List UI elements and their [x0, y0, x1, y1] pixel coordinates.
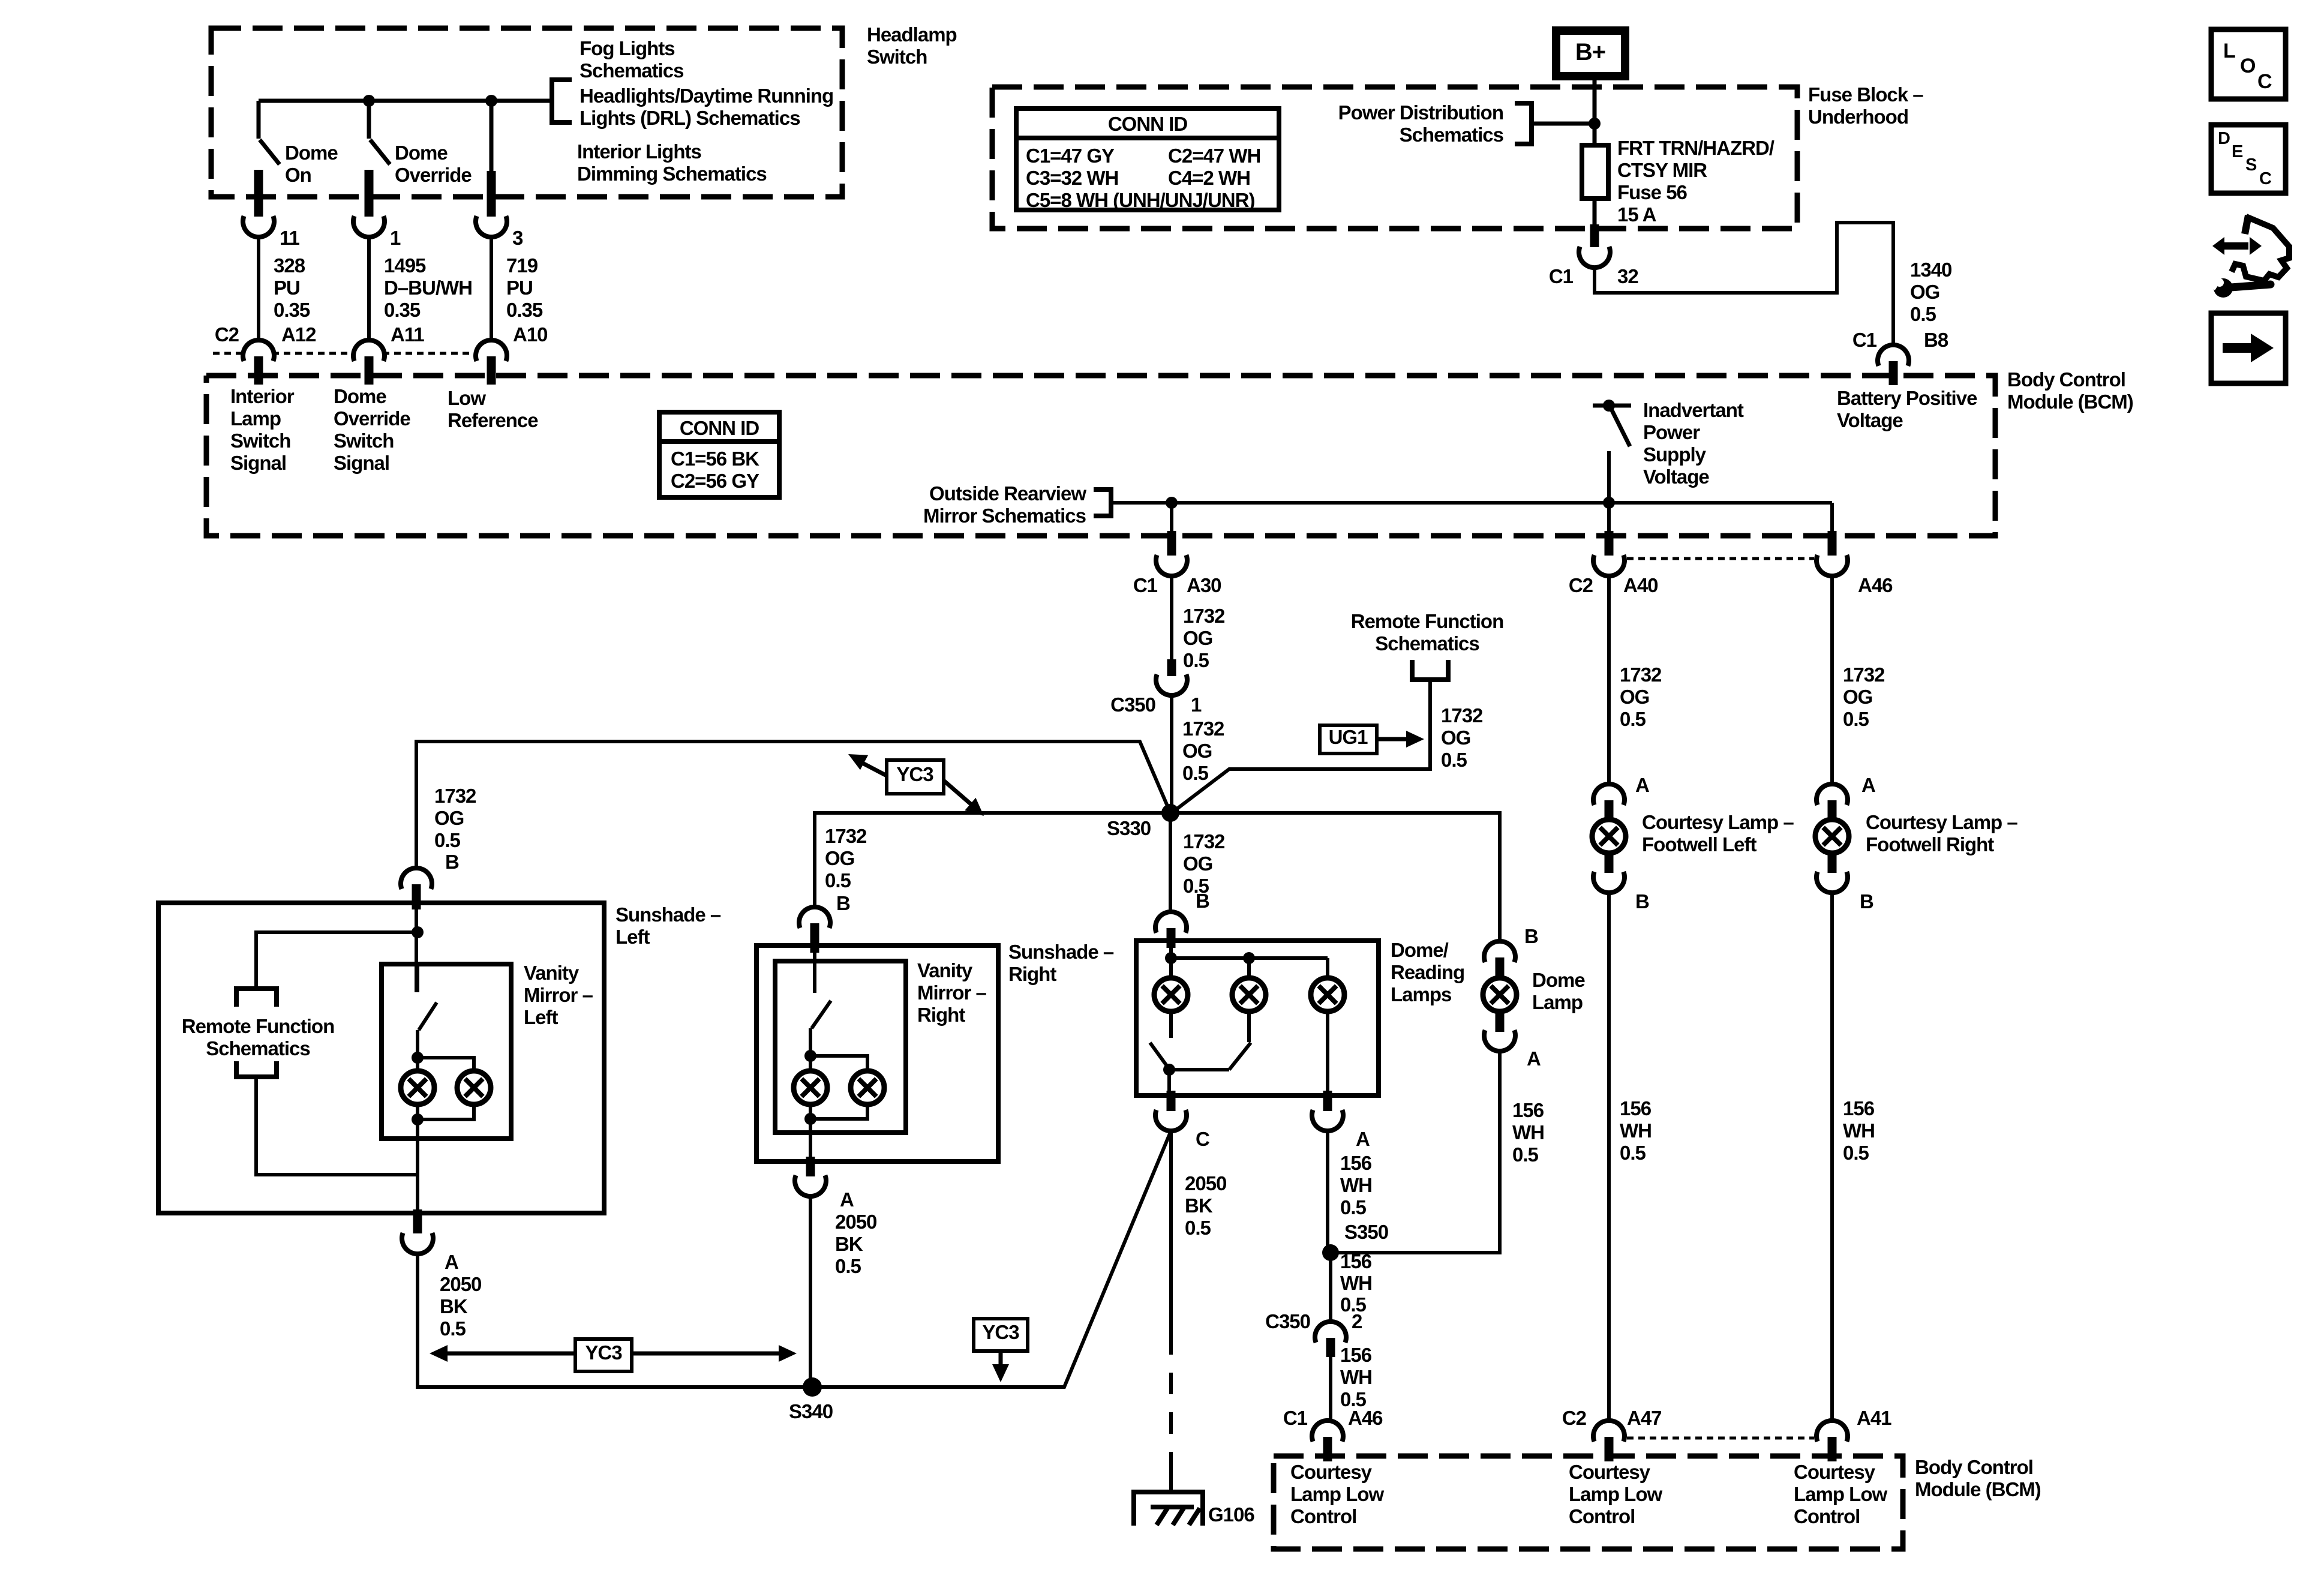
flag YC3 double arrow	[444, 1352, 575, 1356]
svg-text:C350: C350	[1110, 694, 1155, 716]
svg-text:Dimming Schematics: Dimming Schematics	[577, 163, 767, 185]
bracket to other schematics	[552, 80, 572, 122]
Vanity Mirror Right box	[775, 961, 906, 1133]
svg-text:BK: BK	[1185, 1194, 1213, 1217]
svg-text:Vanity: Vanity	[524, 962, 580, 984]
svg-text:WH: WH	[1620, 1119, 1652, 1142]
connector courtesy right pin A	[1816, 784, 1848, 805]
svg-text:C: C	[2257, 70, 2272, 93]
svg-text:C1=56 BK: C1=56 BK	[671, 448, 759, 470]
junction remote function tap left	[412, 926, 424, 938]
svg-text:A10: A10	[513, 323, 548, 346]
svg-text:A: A	[1861, 774, 1875, 796]
svg-text:Lamps: Lamps	[1391, 983, 1451, 1005]
svg-text:S340: S340	[789, 1400, 833, 1422]
svg-text:Schematics: Schematics	[206, 1037, 310, 1059]
Body Control Module bottom dashed box	[1274, 1456, 1903, 1549]
svg-text:A46: A46	[1348, 1407, 1383, 1429]
wire 1732 OG 0.5 remote function to S330	[1172, 680, 1430, 813]
svg-text:1732: 1732	[1441, 704, 1483, 727]
lamp courtesy footwell left	[1592, 819, 1626, 853]
wire 2050 BK 0.5 dome reading ground	[1169, 1131, 1173, 1333]
svg-text:Footwell Right: Footwell Right	[1866, 833, 1994, 855]
connector courtesy right pin B	[1828, 852, 1837, 873]
connector C2 pin A47	[1562, 1407, 1587, 1429]
battery feed B+	[1556, 31, 1625, 76]
flag YC3 lower	[974, 1319, 1028, 1351]
svg-text:C2: C2	[1569, 574, 1593, 596]
pin label courtesy lamp low control 3	[1794, 1461, 1887, 1527]
svg-text:A12: A12	[281, 323, 316, 346]
svg-text:Sunshade –: Sunshade –	[615, 903, 721, 926]
svg-text:Courtesy: Courtesy	[1569, 1461, 1651, 1483]
wire 1732 OG 0.5 C350 to S330	[1170, 695, 1173, 813]
junction dome override bus	[363, 95, 375, 107]
Sunshade Left box	[158, 903, 604, 1213]
svg-text:PU: PU	[274, 277, 300, 299]
svg-text:Control: Control	[1794, 1505, 1860, 1527]
svg-text:Voltage: Voltage	[1837, 409, 1903, 431]
svg-text:Signal: Signal	[230, 452, 286, 474]
svg-text:0.5: 0.5	[1843, 1142, 1869, 1164]
connector C350 pin 1	[1167, 659, 1176, 676]
svg-text:B+: B+	[1575, 39, 1605, 65]
wire B+ to fuse	[1593, 76, 1597, 145]
svg-text:Courtesy: Courtesy	[1290, 1461, 1373, 1483]
switch vanity mirror right	[813, 948, 816, 993]
svg-text:OG: OG	[1183, 852, 1212, 875]
svg-text:Fuse Block –: Fuse Block –	[1808, 83, 1923, 106]
svg-text:Voltage: Voltage	[1643, 466, 1709, 488]
junction vanity left lamps bottom	[412, 1113, 424, 1125]
svg-text:0.35: 0.35	[274, 299, 310, 321]
switch vanity mirror left	[416, 965, 419, 992]
svg-text:Mirror Schematics: Mirror Schematics	[923, 505, 1086, 527]
svg-text:Lamp Low: Lamp Low	[1794, 1483, 1887, 1505]
svg-text:2050: 2050	[440, 1273, 481, 1295]
junction dome lamp1 bus	[1165, 952, 1177, 964]
wire vanity right ground lead	[809, 1104, 812, 1161]
svg-text:L: L	[2223, 40, 2235, 62]
svg-text:Reading: Reading	[1391, 961, 1464, 983]
wire 156 WH 0.5 S350 to C350	[1329, 1253, 1332, 1322]
svg-text:C: C	[1196, 1128, 1209, 1150]
svg-text:UG1: UG1	[1329, 726, 1368, 748]
svg-text:0.35: 0.35	[506, 299, 543, 321]
bracket Outside Rearview Mirror Schematics	[929, 482, 1086, 505]
svg-text:0.35: 0.35	[384, 299, 421, 321]
wire vanity left feed	[415, 905, 418, 992]
svg-text:1732: 1732	[1183, 605, 1225, 627]
svg-text:C: C	[2259, 169, 2272, 188]
svg-text:156: 156	[1340, 1152, 1372, 1174]
svg-text:Fuse 56: Fuse 56	[1617, 181, 1688, 203]
svg-text:Control: Control	[1290, 1505, 1356, 1527]
svg-text:156: 156	[1340, 1250, 1372, 1272]
lamp dome	[1483, 978, 1517, 1011]
svg-text:YC3: YC3	[585, 1341, 622, 1364]
connector dome reading pin A	[1323, 1091, 1332, 1111]
wire 1732 OG 0.5 A40 to courtesy left	[1607, 576, 1611, 784]
svg-text:Courtesy Lamp –: Courtesy Lamp –	[1866, 811, 2017, 833]
junction A30 tap	[1166, 497, 1178, 509]
Fuse Block Underhood dashed box	[992, 87, 1797, 229]
CONN ID table fuse block	[1016, 109, 1279, 210]
connector dome lamp pin A	[1496, 1010, 1505, 1032]
icon DESC	[2211, 125, 2286, 193]
switch Dome On	[257, 101, 261, 139]
label Remote Function Schematics middle	[1351, 610, 1504, 632]
wire S350 to dome lamp A	[1331, 1051, 1500, 1253]
svg-text:32: 32	[1617, 265, 1638, 287]
ground G106	[1134, 1492, 1203, 1526]
connector face line C2 A47-A41	[1627, 1437, 1814, 1440]
wire headlamp switch internal bus	[259, 99, 552, 103]
svg-text:A47: A47	[1627, 1407, 1662, 1429]
svg-text:Remote Function: Remote Function	[1351, 610, 1504, 632]
svg-text:15 A: 15 A	[1617, 203, 1656, 226]
svg-text:1732: 1732	[434, 785, 476, 807]
svg-text:Lamp Low: Lamp Low	[1290, 1483, 1384, 1505]
svg-text:2050: 2050	[1185, 1172, 1226, 1194]
Body Control Module top dashed box	[206, 376, 1995, 536]
svg-text:A40: A40	[1623, 574, 1658, 596]
switch Inadvertant Power Supply Voltage	[1593, 404, 1631, 408]
svg-text:Courtesy: Courtesy	[1794, 1461, 1876, 1483]
BCM connector pin A10	[513, 323, 548, 346]
splice S340	[803, 1377, 822, 1397]
svg-text:S: S	[2245, 155, 2257, 175]
svg-text:0.5: 0.5	[1620, 708, 1646, 730]
svg-text:0.5: 0.5	[825, 869, 851, 891]
Sunshade Right box	[756, 945, 998, 1161]
svg-text:Outside Rearview: Outside Rearview	[929, 482, 1086, 505]
lamp vanity mirror right 1	[794, 1071, 827, 1104]
svg-text:Right: Right	[917, 1004, 965, 1026]
svg-text:E: E	[2232, 142, 2243, 161]
svg-text:Dome: Dome	[395, 142, 448, 164]
svg-text:Control: Control	[1569, 1505, 1635, 1527]
svg-text:1732: 1732	[1843, 664, 1885, 686]
BCM connector C2 pin A12	[215, 323, 239, 346]
svg-text:Left: Left	[615, 926, 650, 948]
connector pin 1	[365, 192, 374, 217]
svg-text:C350: C350	[1265, 1310, 1310, 1332]
wire 156 WH 0.5 courtesy right to A41	[1830, 893, 1834, 1421]
svg-text:B: B	[836, 892, 850, 914]
svg-text:OG: OG	[434, 807, 464, 829]
svg-text:FRT TRN/HAZRD/: FRT TRN/HAZRD/	[1617, 137, 1774, 159]
wire 1732 OG 0.5 A30 to C350	[1170, 576, 1173, 659]
svg-text:C2: C2	[1562, 1407, 1587, 1429]
svg-text:WH: WH	[1843, 1119, 1875, 1142]
svg-text:Interior: Interior	[230, 385, 295, 407]
headlamp switch dashed box	[211, 28, 842, 197]
svg-text:3: 3	[512, 227, 523, 249]
svg-text:1495: 1495	[384, 254, 426, 277]
svg-text:C2: C2	[215, 323, 239, 346]
svg-text:719: 719	[506, 254, 538, 277]
svg-text:0.5: 0.5	[434, 829, 461, 851]
wire 1340 OG 0.5	[1595, 223, 1893, 345]
connector C2 pin A40	[1605, 531, 1614, 556]
svg-text:S350: S350	[1344, 1221, 1388, 1243]
connector vanity right pin A	[806, 1157, 815, 1176]
svg-text:Underhood: Underhood	[1808, 106, 1908, 128]
connector pin 11	[254, 192, 263, 217]
connector C1 pin A46 courtesy low	[1283, 1407, 1308, 1429]
svg-text:C1: C1	[1852, 329, 1877, 351]
connector pin 3	[487, 192, 496, 217]
svg-text:1732: 1732	[1620, 664, 1662, 686]
splice S350	[1322, 1244, 1339, 1261]
svg-text:156: 156	[1512, 1099, 1544, 1121]
svg-text:A30: A30	[1187, 574, 1221, 596]
connector C1 pin 32	[1590, 224, 1599, 247]
junction vanity left lamps top	[412, 1052, 424, 1064]
connector sunshade left pin B	[401, 868, 432, 889]
icon forward arrow	[2211, 313, 2286, 383]
svg-text:0.5: 0.5	[1843, 708, 1869, 730]
pin label Dome Override Switch Signal	[334, 385, 410, 474]
svg-text:0.5: 0.5	[440, 1317, 466, 1340]
svg-text:Dome/: Dome/	[1391, 939, 1449, 961]
svg-text:OG: OG	[1843, 686, 1872, 708]
lamp vanity mirror left 1	[401, 1071, 434, 1104]
svg-text:A: A	[1527, 1047, 1541, 1070]
svg-text:C2=56 GY: C2=56 GY	[671, 470, 759, 492]
bracket Power Distribution Schematics	[1338, 101, 1503, 124]
svg-text:C3=32 WH: C3=32 WH	[1026, 167, 1118, 189]
svg-text:Vanity: Vanity	[917, 959, 973, 981]
wire 156 WH 0.5 dome lamp	[1512, 1099, 1544, 1166]
svg-text:OG: OG	[1441, 727, 1470, 749]
svg-text:OG: OG	[825, 847, 854, 869]
svg-text:A: A	[1356, 1128, 1370, 1150]
bracket remote function left lower	[236, 1061, 277, 1077]
pin label Low Reference	[448, 387, 538, 431]
bracket remote function left upper	[236, 989, 277, 1007]
lamp dome reading 3	[1326, 958, 1329, 979]
svg-text:Battery Positive: Battery Positive	[1837, 387, 1977, 409]
svg-text:Switch: Switch	[867, 46, 927, 68]
icon LOC	[2211, 29, 2286, 99]
junction low reference bus	[485, 95, 497, 107]
wire 1732 OG 0.5 A46 to courtesy right	[1830, 576, 1834, 784]
svg-text:On: On	[285, 164, 311, 186]
connector courtesy left pin B	[1605, 852, 1614, 873]
svg-text:WH: WH	[1512, 1121, 1544, 1143]
svg-text:YC3: YC3	[982, 1321, 1019, 1343]
svg-text:Mirror –: Mirror –	[917, 981, 987, 1004]
icon repair instructions	[2224, 242, 2248, 250]
junction A40 tap	[1603, 497, 1615, 509]
svg-text:CONN ID: CONN ID	[1108, 113, 1188, 135]
wire dome reading lamp3 to A	[1326, 1010, 1329, 1095]
svg-text:156: 156	[1340, 1344, 1372, 1366]
connector vanity left pin A	[413, 1209, 422, 1233]
svg-text:WH: WH	[1340, 1272, 1372, 1294]
wire fuse to C1 32	[1593, 199, 1597, 229]
svg-text:Courtesy Lamp –: Courtesy Lamp –	[1642, 811, 1794, 833]
wire to remote function left	[256, 932, 418, 986]
svg-text:0.5: 0.5	[835, 1255, 861, 1277]
svg-text:C4=2 WH: C4=2 WH	[1168, 167, 1250, 189]
svg-text:Mirror –: Mirror –	[524, 984, 593, 1006]
svg-text:1: 1	[390, 227, 401, 249]
pin label courtesy lamp low control 2	[1569, 1461, 1662, 1527]
svg-text:B: B	[445, 851, 459, 873]
svg-text:Module (BCM): Module (BCM)	[2007, 391, 2133, 413]
pin label Interior Lamp Switch Signal	[230, 385, 295, 474]
svg-text:Left: Left	[524, 1006, 559, 1028]
svg-text:C1: C1	[1283, 1407, 1308, 1429]
lamp dome reading 2	[1247, 958, 1251, 979]
wire outside rearview mirror feed	[1111, 501, 1832, 505]
svg-text:Supply: Supply	[1643, 443, 1707, 466]
lamp courtesy footwell right	[1815, 819, 1849, 853]
switch Dome Override	[367, 101, 371, 139]
svg-text:156: 156	[1620, 1097, 1652, 1119]
svg-text:156: 156	[1843, 1097, 1875, 1119]
svg-text:C1: C1	[1549, 265, 1574, 287]
svg-text:A46: A46	[1858, 574, 1893, 596]
svg-text:B: B	[1860, 890, 1873, 912]
svg-text:Dome: Dome	[1532, 969, 1585, 991]
svg-text:Schematics: Schematics	[1400, 124, 1503, 146]
svg-text:0.5: 0.5	[1910, 303, 1936, 325]
svg-text:BK: BK	[440, 1295, 468, 1317]
svg-text:Interior Lights: Interior Lights	[577, 140, 701, 163]
Vanity Mirror Left box	[382, 964, 511, 1139]
svg-text:B: B	[1635, 890, 1649, 912]
svg-text:Sunshade –: Sunshade –	[1008, 941, 1114, 963]
svg-text:1732: 1732	[825, 825, 867, 847]
svg-text:Body Control: Body Control	[1915, 1456, 2033, 1478]
svg-text:A: A	[445, 1251, 458, 1273]
connector C1 pin A30	[1167, 531, 1176, 556]
svg-text:1: 1	[1191, 694, 1202, 716]
svg-text:1340: 1340	[1910, 259, 1951, 281]
connector pin A41	[1857, 1407, 1891, 1429]
BCM connector pin A11	[391, 323, 424, 346]
svg-text:C2=47 WH: C2=47 WH	[1168, 145, 1260, 167]
svg-text:0.5: 0.5	[1620, 1142, 1646, 1164]
connector C350 pin 2	[1265, 1310, 1310, 1332]
wire vanity left lamp2 branch top	[418, 1058, 474, 1073]
svg-text:D: D	[2218, 129, 2230, 148]
svg-text:WH: WH	[1340, 1366, 1372, 1388]
svg-text:Module (BCM): Module (BCM)	[1915, 1478, 2041, 1500]
wire dashed ground lead to G106	[1169, 1333, 1173, 1473]
Dome Reading Lamps box	[1136, 941, 1379, 1095]
svg-text:Low: Low	[448, 387, 486, 409]
svg-text:Lamp: Lamp	[230, 407, 281, 430]
wire vanity left ground lead	[416, 1104, 419, 1175]
svg-text:A: A	[840, 1188, 854, 1211]
wire S330 branch to dome lamp	[1170, 813, 1500, 941]
wire S330 branch to sunshade left	[416, 742, 1170, 868]
svg-text:1732: 1732	[1182, 718, 1224, 740]
junction vanity right lamps top	[804, 1050, 816, 1062]
wire 156 WH 0.5 dome reading A to S350	[1326, 1131, 1329, 1253]
connector dome reading pin C	[1167, 1091, 1176, 1111]
svg-text:C1=47 GY: C1=47 GY	[1026, 145, 1115, 167]
svg-text:Remote Function: Remote Function	[182, 1015, 335, 1037]
svg-text:PU: PU	[506, 277, 533, 299]
svg-text:1732: 1732	[1183, 830, 1225, 852]
svg-text:OG: OG	[1183, 627, 1212, 649]
svg-text:0.5: 0.5	[1183, 649, 1209, 671]
wire 2050 BK 0.5 left to S340	[418, 1254, 812, 1387]
svg-text:2050: 2050	[835, 1211, 876, 1233]
connector face line C2 A40-A46	[1627, 557, 1814, 560]
fuse FRT TRN/HAZRD/CTSY MIR Fuse 56 15 A	[1582, 145, 1608, 199]
wire low reference drop	[490, 101, 494, 174]
svg-text:0.5: 0.5	[1512, 1143, 1539, 1166]
lamp dome reading 1	[1169, 958, 1173, 979]
svg-text:Schematics: Schematics	[1375, 632, 1479, 655]
svg-text:328: 328	[274, 254, 305, 277]
svg-text:Footwell Left: Footwell Left	[1642, 833, 1756, 855]
svg-text:YC3: YC3	[896, 763, 933, 785]
wire 2050 BK 0.5 right to S340	[809, 1196, 812, 1387]
wire dome reading bus	[1169, 943, 1173, 958]
svg-text:S330: S330	[1107, 817, 1151, 839]
CONN ID table BCM	[659, 412, 779, 497]
svg-text:Headlamp: Headlamp	[867, 23, 957, 46]
svg-text:Right: Right	[1008, 963, 1056, 985]
svg-text:A: A	[1635, 774, 1649, 796]
label Remote Function Schematics left	[182, 1015, 335, 1037]
svg-text:CONN ID: CONN ID	[680, 417, 759, 439]
svg-text:Dome: Dome	[285, 142, 338, 164]
svg-text:OG: OG	[1182, 740, 1212, 762]
svg-text:Dome: Dome	[334, 385, 386, 407]
wire S340 to dome reading C	[812, 1131, 1171, 1387]
svg-text:O: O	[2240, 55, 2256, 77]
svg-text:Lamp: Lamp	[1532, 991, 1583, 1013]
svg-text:OG: OG	[1620, 686, 1649, 708]
connector pin A46 footwell right feed	[1828, 531, 1837, 556]
bracket remote function middle	[1412, 660, 1448, 680]
svg-text:11: 11	[280, 227, 300, 249]
lamp vanity mirror left 2	[457, 1071, 491, 1104]
connector courtesy left pin A	[1593, 784, 1625, 805]
connector dome lamp pin B	[1484, 941, 1515, 962]
svg-text:Schematics: Schematics	[580, 59, 683, 82]
svg-text:B8: B8	[1924, 329, 1948, 351]
connector C1 pin B8	[1852, 329, 1877, 351]
svg-text:Switch: Switch	[230, 430, 290, 452]
svg-text:Signal: Signal	[334, 452, 389, 474]
svg-text:OG: OG	[1910, 281, 1939, 303]
wire S330 branch to sunshade right	[815, 813, 1170, 907]
svg-text:Fog Lights: Fog Lights	[580, 37, 675, 59]
junction power distribution	[1589, 118, 1601, 130]
svg-text:2: 2	[1352, 1310, 1362, 1332]
svg-text:Body Control: Body Control	[2007, 368, 2125, 391]
wire S330 to dome reading lamps B	[1169, 813, 1172, 912]
svg-text:BK: BK	[835, 1233, 863, 1255]
svg-text:CTSY MIR: CTSY MIR	[1617, 159, 1707, 181]
svg-text:Switch: Switch	[334, 430, 394, 452]
svg-text:0.5: 0.5	[1185, 1217, 1211, 1239]
svg-text:Power Distribution: Power Distribution	[1338, 101, 1503, 124]
svg-text:A41: A41	[1857, 1407, 1891, 1429]
flag UG1	[1320, 725, 1377, 754]
svg-text:Inadvertant: Inadvertant	[1643, 399, 1744, 421]
